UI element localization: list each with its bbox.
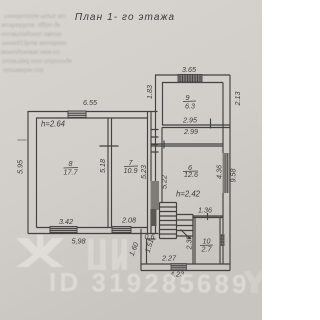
svg-text:5.23: 5.23 [139,165,148,179]
room 10 tick [207,213,209,220]
svg-text:2.27: 2.27 [161,254,177,263]
svg-text:3.65: 3.65 [182,65,197,74]
bottom wall right building [141,264,230,271]
svg-text:2.13: 2.13 [233,92,242,107]
svg-text:1.36: 1.36 [198,206,212,215]
svg-text:5.18: 5.18 [98,159,107,173]
svg-text:3.42: 3.42 [59,217,73,226]
room 9 inner wall [163,83,224,126]
svg-text:2.95: 2.95 [182,116,198,125]
window left top [68,111,86,118]
room 6 top wall [151,144,223,146]
shaft rungs [151,130,159,153]
room 9 outer wall [156,75,231,128]
stairs right flight [177,215,194,237]
door tick room 8/7 [100,145,119,147]
svg-text:ыннортхэпе ыдыг ат: ыннортхэпе ыдыг ат [4,14,66,20]
svg-text:5.22: 5.22 [160,175,169,189]
right outer wall [229,75,231,271]
window room 9 top (dark hatch) [178,75,202,83]
right inner wall [222,83,224,265]
svg-text:2.99: 2.99 [183,127,198,136]
stairs left flight [160,203,177,239]
svg-text:нтармруте. Ибоп дн: нтармруте. Ибоп дн [1,23,61,29]
window right wall hatch [223,153,230,193]
room 10 left wall [193,216,195,264]
svg-text:5,98: 5,98 [72,237,86,246]
bleed-through text top-left [1,14,72,74]
svg-text:План 1- го этажа: План 1- го этажа [75,12,175,23]
vestibule left wall [141,229,147,271]
left building bottom outer wall [28,233,159,235]
svg-text:1.83: 1.83 [145,85,154,99]
svg-text:6.3: 6.3 [185,102,195,111]
door hatch room 10 right [220,234,225,246]
svg-text:2.37: 2.37 [185,235,194,251]
svg-text:ынна913утв ахторонс: ынна913утв ахторонс [2,41,67,47]
svg-text:6.55: 6.55 [83,98,98,107]
tick on room 6 top wall [163,141,165,149]
svg-text:4.36: 4.36 [215,165,224,179]
room 9 bottom wall [162,125,230,128]
svg-text:ID 319285689: ID 319285689 [49,267,250,299]
left building bottom inner wall [37,227,148,229]
window bottom wall right building [171,264,187,271]
big glyph like Ж [16,238,64,267]
svg-text:h=2,42: h=2,42 [176,190,201,199]
svg-text:10.9: 10.9 [124,166,138,175]
vestibule top tick [147,238,156,240]
left building right wall (double) [148,112,152,234]
windows left bottom [50,227,131,233]
svg-text:отчвиладоноп овтээ: отчвиладоноп овтээ [1,32,61,38]
fraction bars [64,101,214,246]
svg-text:9.58: 9.58 [229,169,238,183]
shaft hatch [151,181,160,226]
interior wall rooms 8/7 [108,118,112,228]
left building outer wall [28,112,158,234]
svg-text:17.7: 17.7 [64,168,79,177]
left building inner wall [37,118,148,228]
svg-text:отшвеqэн пза: отшвеqэн пза [3,68,44,74]
shaft wall between buildings [156,128,163,234]
stairs arrow [181,230,191,240]
partial glyph bottom-right [243,271,262,293]
tick on room9 bottom wall [210,119,212,129]
svg-text:h=2.64: h=2.64 [41,120,66,129]
svg-text:2.08: 2.08 [121,216,136,225]
svg-text:отэвასеq ноw отрплидя: отэвასеq ноw отрплидя [2,58,72,65]
svg-text:монтдээпвак нюя-оп: монтдээпвак нюя-оп [1,50,60,56]
tick on outer left wall [18,139,27,141]
room 10 top wall [193,216,223,218]
svg-text:5.95: 5.95 [16,159,25,174]
room 10 inner right line [219,218,221,265]
svg-text:2.7: 2.7 [201,245,213,254]
ЦИ bars [88,239,127,270]
